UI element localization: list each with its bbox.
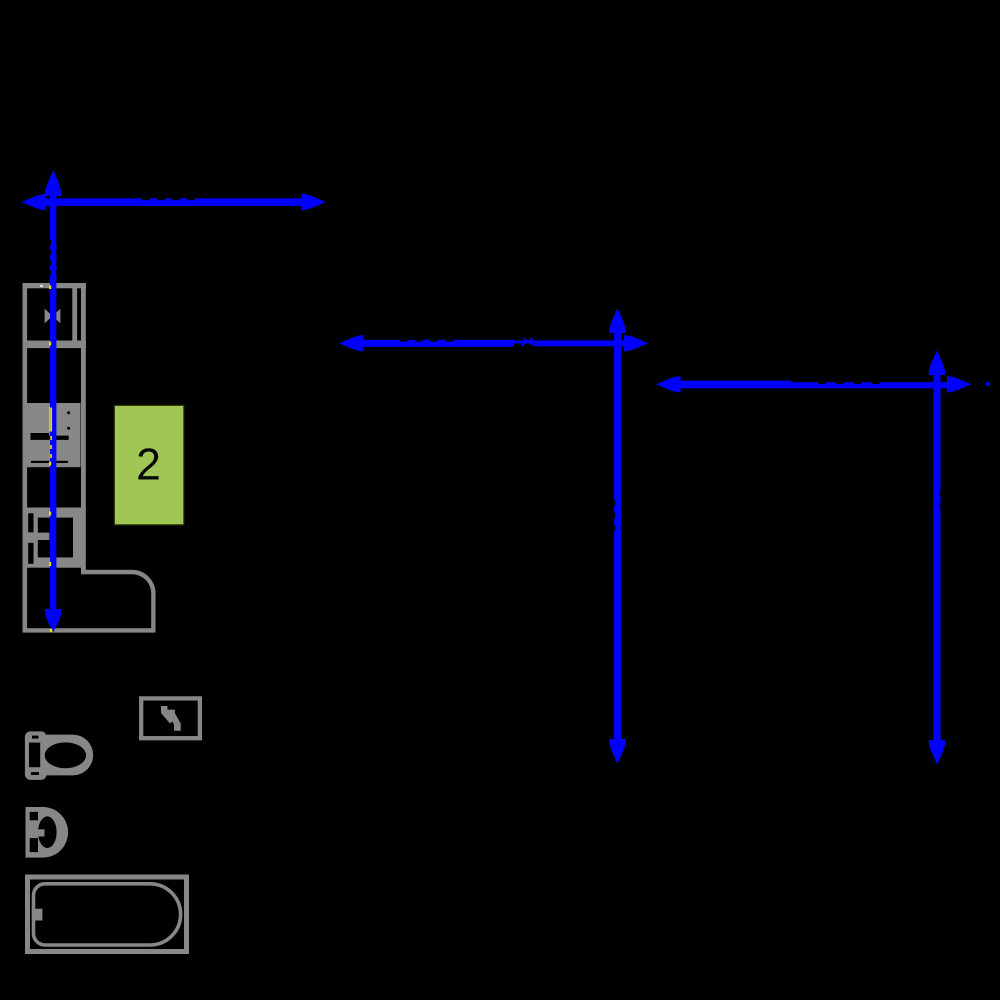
H3 thin right segment	[789, 382, 950, 388]
H1 top edge nick 2	[157, 198, 165, 200]
washer drum	[38, 518, 73, 558]
dimension horizontal line H1	[44, 198, 304, 206]
H1 top edge nick 4	[187, 198, 195, 200]
H2 pinch thin segment	[514, 341, 537, 344]
V3 arrowhead up	[929, 350, 946, 375]
H1 arrowhead left	[22, 194, 47, 210]
oven knob dot 1	[67, 411, 70, 414]
toilet bowl	[42, 735, 93, 776]
H2 top edge nick 2	[415, 340, 423, 342]
V1 arrowhead down	[45, 609, 62, 633]
dimension horizontal line H3	[678, 381, 791, 389]
V3 edge nick 1	[939, 490, 940, 496]
V1 edge nick 2	[50, 250, 51, 255]
dimension vertical line V1	[50, 194, 56, 611]
yellow dash on V1 below oven bar 3	[50, 454, 52, 458]
sink valve bowtie symbol	[45, 309, 61, 324]
yellow speck V1 top wall	[49, 286, 51, 290]
H3 stray dot	[986, 382, 990, 386]
H2 top edge nick 1	[400, 340, 408, 342]
H3 arrowhead left	[656, 376, 681, 392]
H2 top edge nick 3	[430, 340, 438, 342]
yellow speck V1 washer bottom	[49, 562, 51, 566]
counter foot right wall	[151, 593, 155, 633]
oven door handle bar	[31, 433, 69, 440]
counter bottom wall	[23, 628, 156, 632]
white speck on counter top wall	[40, 285, 43, 287]
electrical box lightning mark stroke 2	[167, 710, 180, 731]
washer left slot lower	[28, 543, 33, 564]
wash basin notch top	[30, 812, 38, 820]
wash basin notch bottom	[30, 838, 38, 852]
dimension vertical line V3	[934, 372, 941, 743]
V2 edge nick 1	[614, 500, 615, 506]
H3 top edge nick 2	[836, 382, 844, 384]
toilet bowl inner	[45, 742, 86, 768]
wash basin faucet bar	[30, 829, 45, 836]
H3 arrowhead right	[947, 376, 972, 392]
svg-text:2: 2	[136, 441, 161, 490]
toilet tank tick top	[32, 736, 38, 739]
dimension vertical line V2	[614, 330, 621, 742]
toilet tank inner	[29, 743, 40, 768]
V2 arrowhead down	[609, 739, 626, 764]
oven bottom line	[31, 461, 68, 463]
V2 edge nick 2	[614, 513, 615, 519]
H1 top edge nick 3	[172, 198, 180, 200]
V1 edge nick 3	[50, 260, 51, 265]
toilet tank tick bottom	[31, 772, 39, 775]
H2 right segment	[535, 340, 626, 346]
V2 edge nick 3	[614, 525, 615, 531]
kitchen counter top wall	[23, 283, 87, 288]
yellow underlay segment on dimension line V1	[49, 407, 51, 432]
toilet tank	[25, 731, 47, 780]
wash basin body	[26, 807, 69, 858]
bathtub outer rect	[28, 877, 187, 952]
green room label box	[114, 405, 184, 525]
H2 arrowhead right	[624, 335, 649, 351]
washer detergent tab	[34, 533, 50, 540]
V2 arrowhead up	[609, 308, 626, 333]
H2 arrowhead left	[339, 335, 364, 351]
bathtub faucet block	[32, 909, 43, 921]
yellow dash on V1 below oven bar 1	[50, 436, 52, 440]
kitchen counter left wall	[23, 283, 28, 633]
V3 edge nick 2	[939, 503, 940, 509]
yellow overlay strip on V1 at oven (over blue)	[50, 408, 52, 432]
H2 top edge nick 4	[446, 340, 454, 342]
H1 arrowhead right	[302, 194, 327, 210]
washer left slot upper	[28, 513, 33, 532]
counter step ledge	[81, 570, 133, 575]
H2 junction cross tick 1	[521, 338, 533, 346]
V1 edge nick 4	[50, 270, 51, 275]
yellow speck V1 divider	[49, 342, 51, 346]
yellow speck V1 oven bottom	[49, 462, 51, 466]
electrical box lightning mark stroke 1	[161, 706, 175, 724]
H3 top edge nick 3	[854, 382, 862, 384]
oven knob dot 2	[67, 427, 70, 430]
V1 edge nick 1	[50, 240, 51, 245]
H2 junction cross tick 2	[523, 339, 535, 346]
washer appliance body	[25, 508, 81, 568]
bathtub inner tub	[34, 884, 181, 945]
oven appliance body	[26, 403, 80, 467]
V3 arrowhead down	[929, 740, 946, 765]
sink box right edge	[72, 288, 77, 345]
yellow dash on V1 below oven bar 2	[50, 445, 52, 449]
kitchen counter right wall	[81, 283, 86, 570]
counter rounded corner arc	[132, 572, 153, 594]
H3 top edge nick 4	[872, 382, 880, 384]
electrical box	[141, 698, 200, 738]
V1 arrowhead up	[45, 170, 62, 196]
H3 top edge nick 1	[818, 382, 826, 384]
yellow speck V1 washer top	[49, 512, 51, 516]
sink box divider	[26, 341, 86, 349]
yellow speck V1 bottom wall	[50, 629, 53, 632]
H3 junction tick	[776, 382, 788, 388]
dimension horizontal line H2	[361, 340, 514, 347]
H1 top edge nick 1	[142, 198, 150, 200]
wash basin bowl	[38, 816, 57, 848]
